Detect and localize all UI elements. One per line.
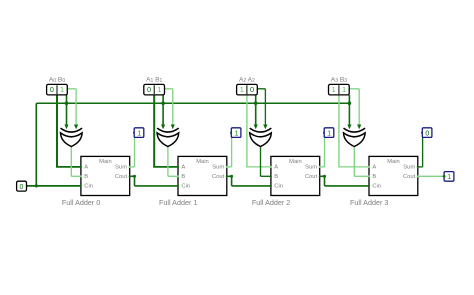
svg-text:Sum: Sum [305, 165, 317, 171]
svg-text:A2 A2: A2 A2 [239, 76, 255, 84]
svg-text:A1 B1: A1 B1 [146, 76, 162, 84]
svg-text:B: B [372, 174, 376, 180]
svg-text:1: 1 [342, 85, 346, 94]
svg-text:Cin: Cin [181, 184, 190, 190]
svg-text:Cout: Cout [212, 174, 225, 180]
svg-text:Cin: Cin [372, 184, 381, 190]
svg-text:0: 0 [425, 130, 429, 137]
svg-text:Full Adder 2: Full Adder 2 [252, 198, 290, 207]
svg-text:A: A [372, 165, 376, 171]
svg-text:B: B [84, 174, 88, 180]
svg-text:A: A [84, 165, 88, 171]
svg-text:1: 1 [240, 85, 244, 94]
svg-text:Sum: Sum [115, 165, 127, 171]
svg-text:A0 B0: A0 B0 [49, 76, 65, 84]
svg-text:Cout: Cout [305, 174, 318, 180]
svg-text:B: B [181, 174, 185, 180]
svg-text:1: 1 [332, 85, 336, 94]
svg-text:Cout: Cout [115, 174, 128, 180]
svg-text:0: 0 [250, 85, 254, 94]
svg-text:Full Adder 1: Full Adder 1 [159, 198, 197, 207]
svg-text:1: 1 [447, 174, 451, 181]
svg-text:Cin: Cin [84, 184, 93, 190]
svg-text:Cin: Cin [274, 184, 283, 190]
svg-text:Main: Main [387, 159, 400, 165]
svg-text:1: 1 [157, 85, 161, 94]
svg-text:1: 1 [234, 130, 238, 137]
svg-text:0: 0 [20, 184, 24, 191]
svg-text:Main: Main [289, 159, 302, 165]
svg-text:1: 1 [137, 130, 141, 137]
svg-text:Sum: Sum [403, 165, 415, 171]
svg-text:Full Adder 3: Full Adder 3 [350, 198, 388, 207]
svg-text:Main: Main [196, 159, 209, 165]
svg-text:1: 1 [327, 130, 331, 137]
svg-text:A: A [274, 165, 278, 171]
svg-text:A3 B3: A3 B3 [331, 76, 347, 84]
svg-text:1: 1 [60, 85, 64, 94]
svg-text:Full Adder 0: Full Adder 0 [62, 198, 100, 207]
svg-text:Main: Main [99, 159, 112, 165]
svg-text:Cout: Cout [403, 174, 416, 180]
svg-text:B: B [274, 174, 278, 180]
svg-text:0: 0 [147, 85, 151, 94]
svg-text:A: A [181, 165, 185, 171]
svg-text:0: 0 [50, 85, 54, 94]
svg-text:Sum: Sum [212, 165, 224, 171]
